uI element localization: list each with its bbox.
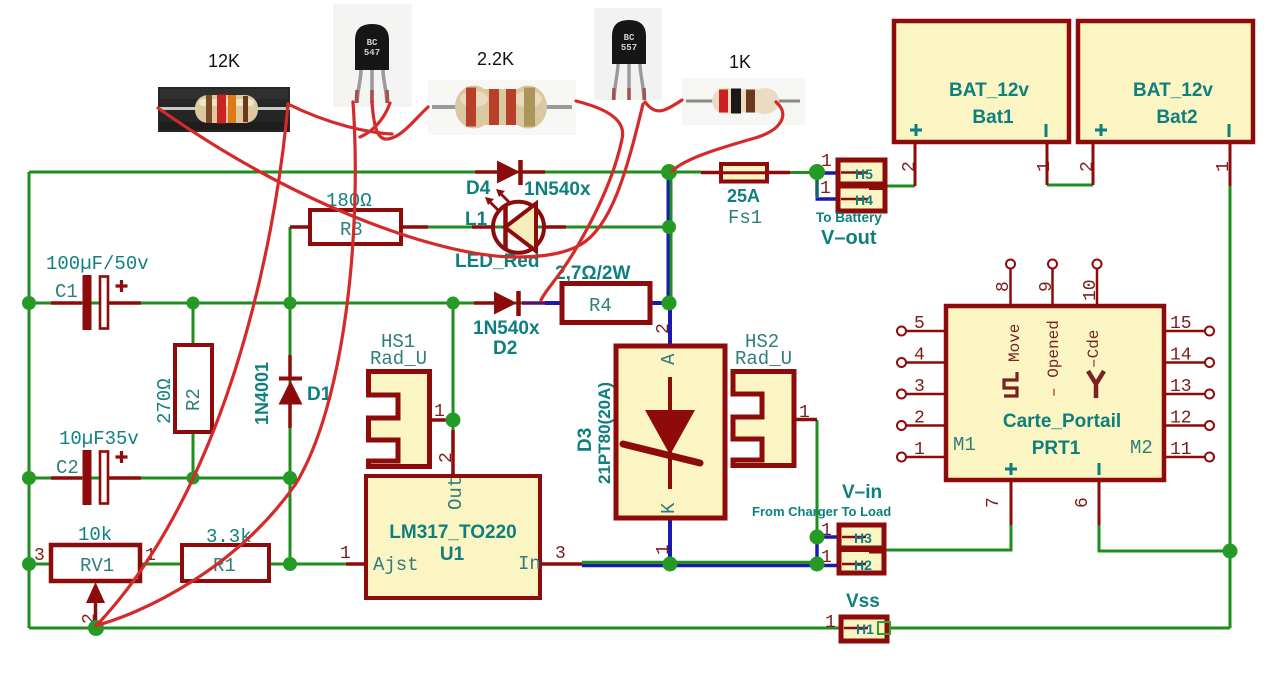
wire U1 in row green [582,561,817,564]
svg-text:LED_Red: LED_Red [455,251,539,272]
heatsink HS1 [369,372,452,467]
resistor R4 [562,284,650,323]
wire D3 anode (blue) [668,303,672,346]
label D2 ref [493,338,517,359]
svg-text:–Cde: –Cde [1085,330,1103,368]
label PRT1 value [1003,411,1121,432]
wire C1 row [29,302,545,305]
connector H4 label [855,192,873,208]
wire R4 to node (blue) [650,301,668,305]
svg-text:10: 10 [1081,279,1101,301]
svg-text:To Battery: To Battery [816,210,882,225]
pin 3 U1 [555,544,566,564]
pin Out U1 [445,476,467,510]
svg-text:1N540x: 1N540x [473,318,540,339]
pin 2 Bat1 [900,161,920,172]
label H3 [854,530,872,546]
connector H1 Vss [841,617,890,641]
label R2 ref [183,388,205,411]
potentiometer RV1 [51,545,140,625]
svg-text:Out: Out [445,476,467,510]
svg-text:C1: C1 [55,281,78,303]
label U1 value [389,522,516,543]
photo resistor 2.2K [428,80,576,135]
label Bat2 ref [1156,107,1197,128]
label HS2 value [735,348,792,370]
label C1 value [46,253,149,275]
pin name Cde PRT1 [1085,330,1104,398]
svg-text:R3: R3 [340,219,363,241]
svg-text:K: K [658,502,680,514]
thyristor D3 21PT80 [616,346,725,518]
label D4 ref [466,178,491,199]
svg-text:1: 1 [914,440,925,460]
resistor R1 [182,545,269,581]
junction node (453,420) [446,413,461,428]
label C2 ref [56,457,79,479]
svg-text:3: 3 [914,377,925,397]
pin 1 H1 [825,613,836,633]
label D3 ref [575,428,596,452]
junction node (193,303) [187,297,200,310]
svg-text:1K: 1K [729,52,751,72]
label D2 value [473,318,540,339]
LED L1 [472,189,566,253]
pin Ajst U1 [373,554,419,576]
pin 1 H3 [821,521,832,541]
pin 3 PRT1 [914,377,925,397]
wire D3 cathode (blue) [668,518,672,564]
heatsink HS2 [733,372,817,466]
junction node (817,564) [810,557,825,572]
wire node column green [670,172,673,303]
pin 2 Bat2 [1078,161,1098,172]
svg-text:25A: 25A [727,186,760,206]
pin 1 H4 [820,179,831,199]
pin name Opened PRT1 [1045,320,1063,397]
pin 5 PRT1 [914,314,925,334]
svg-text:14: 14 [1170,346,1192,366]
junction node (1230,551) [1223,544,1238,559]
svg-text:21PT80(20A): 21PT80(20A) [595,382,614,484]
label Bat1 ref [972,107,1014,128]
label photo 1K [729,52,751,72]
annotation leader BC547 leg1 to bottom node [98,102,355,625]
svg-text:– Opened: – Opened [1045,320,1063,397]
label M1 [953,434,976,456]
svg-text:10µF35v: 10µF35v [59,428,139,450]
pin A D3 [658,353,680,365]
junction node (669,303) [662,296,677,311]
svg-text:1: 1 [799,403,810,423]
label R4 value [555,263,630,284]
wire R2 top stub [192,303,195,345]
svg-text:BAT_12v: BAT_12v [1133,80,1213,101]
svg-text:M2: M2 [1130,437,1153,459]
battery Bat1 [894,21,1069,186]
svg-text:D3: D3 [575,428,596,452]
svg-text:A: A [658,353,680,365]
svg-text:Bat2: Bat2 [1156,107,1197,128]
svg-text:D2: D2 [493,338,517,359]
svg-text:557: 557 [621,43,637,53]
wire D1 to R1 row [289,478,292,564]
pin 1 HS2 [799,403,810,423]
svg-text:8: 8 [994,281,1014,292]
svg-text:H3: H3 [854,530,872,546]
junction node (290,303) [284,297,297,310]
IC PRT1 Carte_Portail [897,260,1214,526]
pin 8 PRT1 [994,281,1014,292]
svg-text:H1: H1 [856,621,874,637]
svg-text:Move: Move [1006,324,1024,362]
svg-text:100µF/50v: 100µF/50v [46,253,149,275]
resistor R2 [175,345,212,432]
svg-text:5: 5 [914,314,925,334]
junction node (290,478) [283,471,297,485]
annotation leader 12K right to legs [288,104,392,134]
junction node (670,564) [663,557,678,572]
svg-text:1: 1 [1035,161,1055,172]
pin 2 U1 [437,452,457,463]
wire RV1 row [29,563,346,566]
diode D4 1N540x [475,160,545,185]
label C1 ref [55,281,78,303]
svg-text:12K: 12K [208,51,240,71]
annotation leader 1K right to top node [672,102,783,171]
wire left rail [28,172,31,628]
label Fs1 value [727,186,760,206]
svg-text:BC: BC [367,38,378,48]
capacitor C1 [51,275,141,330]
label photo 12K [208,51,240,71]
pin 4 PRT1 [914,346,925,366]
battery Bat2 [1078,21,1253,186]
wire Vin node column [815,537,819,564]
svg-text:Fs1: Fs1 [728,207,762,229]
svg-text:3.3k: 3.3k [206,526,252,548]
photo resistor 12K [158,87,290,132]
junction node (29,564) [22,557,36,571]
svg-text:RV1: RV1 [80,555,114,577]
svg-text:1: 1 [434,402,445,422]
wire LED row [401,226,668,229]
pin 1 PRT1 [914,440,925,460]
wire C2 row [29,477,290,480]
junction node (29,303) [22,296,36,310]
label V-out [821,227,877,249]
svg-text:Bat1: Bat1 [972,107,1014,128]
pin 1 Bat1 [1035,161,1055,172]
pin K D3 [658,502,680,514]
svg-text:U1: U1 [440,544,465,565]
label To Battery [816,210,882,225]
pin 12 PRT1 [1170,409,1192,429]
fuse Fs1 25A [701,164,790,182]
label R3 ref [340,219,363,241]
label R2 value [154,378,176,424]
label HS1 ref [381,331,415,353]
annotation leader BC547 leg2 to 2.2K [372,102,428,139]
pin 14 PRT1 [1170,346,1192,366]
wire node to H5 (blue) [819,171,838,175]
svg-text:2: 2 [914,409,925,429]
label From Charger To Load [752,504,891,519]
svg-text:H4: H4 [855,192,873,208]
pin name Move PRT1 [1004,324,1024,396]
pin 11 PRT1 [1170,440,1192,460]
label D4 value [524,179,591,200]
svg-text:R4: R4 [589,295,612,317]
svg-text:1: 1 [1214,161,1234,172]
svg-text:Rad_U: Rad_U [370,348,427,370]
pin 1 U1 [340,544,351,564]
svg-text:Rad_U: Rad_U [735,348,792,370]
pin 1 RV1 [145,546,156,566]
label R1 value [206,526,252,548]
svg-text:Ajst: Ajst [373,554,419,576]
wire U1 out drop [452,303,455,430]
svg-text:L1: L1 [465,209,488,230]
pin 13 PRT1 [1170,377,1192,397]
wire R2 bottom stub [192,432,195,478]
junction node (817,172) [809,164,825,180]
label M2 [1130,437,1153,459]
junction node (290,564) [283,557,297,571]
pin 1 HS1 [434,402,445,422]
pin 1 H5 [821,152,832,172]
connector H5 [838,160,885,211]
wire fuse right [790,171,817,174]
wire D2 to R4 (blue) [545,301,562,305]
svg-text:R2: R2 [183,388,205,411]
pin 7 PRT1 [984,497,1004,508]
svg-text:Vss: Vss [846,591,880,612]
wire PRT1 pin6 to right rail [1099,525,1230,551]
svg-text:2.2K: 2.2K [477,49,514,69]
svg-text:V–out: V–out [821,227,877,249]
pin 1 D3 [654,544,674,555]
label H5 [855,166,873,182]
wire bottom rail [29,627,1230,630]
pin 15 PRT1 [1170,314,1192,334]
svg-text:D4: D4 [466,178,491,199]
label HS1 value [370,348,427,370]
svg-text:547: 547 [364,48,380,58]
wire node drop to H4 [816,174,839,199]
annotation leader 12K right to RV1 wiper [96,104,288,626]
pin 2 D3 [654,323,674,334]
pin 2 RV1 [80,613,100,624]
wire Vin to PRT1 pin7 [884,525,1011,550]
pin 6 PRT1 [1073,497,1093,508]
svg-text:1: 1 [825,613,836,633]
label D1 ref [307,384,332,405]
wire HS2 to Vin [816,420,819,537]
label Bat2 value [1133,80,1213,101]
annotation leader 2.2K right to D2/R4 [541,101,623,300]
svg-text:4: 4 [914,346,925,366]
svg-text:C2: C2 [56,457,79,479]
wire node column blue [667,172,670,303]
svg-text:2: 2 [654,323,674,334]
capacitor C2 [51,450,141,505]
label H1 [856,621,874,637]
wire Vout to Bat1 [884,185,915,188]
wire Bat1 to Bat2 [1047,184,1093,187]
wire top rail [29,171,668,174]
pin 2 PRT1 [914,409,925,429]
svg-text:1: 1 [340,544,351,564]
junction node (29,478) [22,471,36,485]
diode D2 1N540x [474,291,546,316]
svg-text:1: 1 [820,179,831,199]
junction node (193,478) [187,472,200,485]
label HS2 ref [745,331,779,353]
op-amp regulator U1 LM317 [346,430,582,598]
label U1 ref [440,544,465,565]
annotation leader BC557 legs to 1K [645,100,682,111]
label RV1 ref [80,555,114,577]
label D1 value [252,362,272,425]
junction node (96,628) [88,620,104,636]
label Bat1 value [949,80,1029,101]
svg-text:1: 1 [654,544,674,555]
wire fuse left [668,171,701,174]
svg-text:15: 15 [1170,314,1192,334]
connector H3 [839,525,884,573]
photo resistor 1K [682,78,805,125]
svg-text:11: 11 [1170,440,1192,460]
svg-text:In: In [518,553,541,575]
svg-text:PRT1: PRT1 [1032,438,1081,459]
label Fs1 ref [728,207,762,229]
photo transistor BC547 [333,4,412,107]
svg-text:1N540x: 1N540x [524,179,591,200]
svg-text:270Ω: 270Ω [154,378,176,424]
svg-text:10k: 10k [78,524,112,546]
svg-text:2: 2 [437,452,457,463]
svg-text:H5: H5 [855,166,873,182]
label RV1 value [78,524,112,546]
junction node (669,172) [661,164,677,180]
svg-text:9: 9 [1037,281,1057,292]
resistor R3 [290,210,428,244]
diode D1 1N4001 [279,355,303,428]
pin 3 RV1 [34,546,45,566]
pin 1 H2 [821,548,832,568]
svg-text:13: 13 [1170,377,1192,397]
svg-text:6: 6 [1073,497,1093,508]
svg-text:LM317_TO220: LM317_TO220 [389,522,516,543]
junction node (669,227) [662,220,676,234]
junction node (453,303) [447,297,460,310]
connector H2 label [854,557,872,573]
svg-text:1N4001: 1N4001 [252,362,272,425]
svg-text:12: 12 [1170,409,1192,429]
svg-text:BC: BC [624,33,635,43]
label R4 ref [589,295,612,317]
svg-text:BAT_12v: BAT_12v [949,80,1029,101]
pin 1 Bat2 [1214,161,1234,172]
label D3 value [595,382,614,484]
pin 9 PRT1 [1037,281,1057,292]
svg-text:2: 2 [1078,161,1098,172]
label C2 value [59,428,139,450]
svg-text:From Charger To Load: From Charger To Load [752,504,891,519]
label R3 value [326,190,372,212]
label R1 ref [213,555,236,577]
pin In U1 [518,553,541,575]
label V-in [842,482,882,503]
wire R3 left drop [289,227,292,303]
svg-text:Carte_Portail: Carte_Portail [1003,411,1121,432]
svg-text:H2: H2 [854,557,872,573]
wire right rail [1229,185,1232,628]
label Vss [846,591,880,612]
svg-text:V–in: V–in [842,482,882,503]
label photo 2.2K [477,49,514,69]
wire D1 branch [289,303,292,478]
svg-text:3: 3 [555,544,566,564]
svg-text:M1: M1 [953,434,976,456]
junction node (817,537) [810,530,825,545]
annotation leader BC547 leg3 [360,103,390,137]
svg-text:7: 7 [984,497,1004,508]
label L1 value [455,251,539,272]
label L1 ref [465,209,488,230]
svg-text:2: 2 [900,161,920,172]
photo transistor BC557 [594,8,662,100]
pin 10 PRT1 [1081,279,1101,301]
label PRT1 ref [1032,438,1081,459]
annotation leader 12K left to BC557 legs (big U) [158,104,643,257]
wire U1 in row blue [582,537,839,566]
